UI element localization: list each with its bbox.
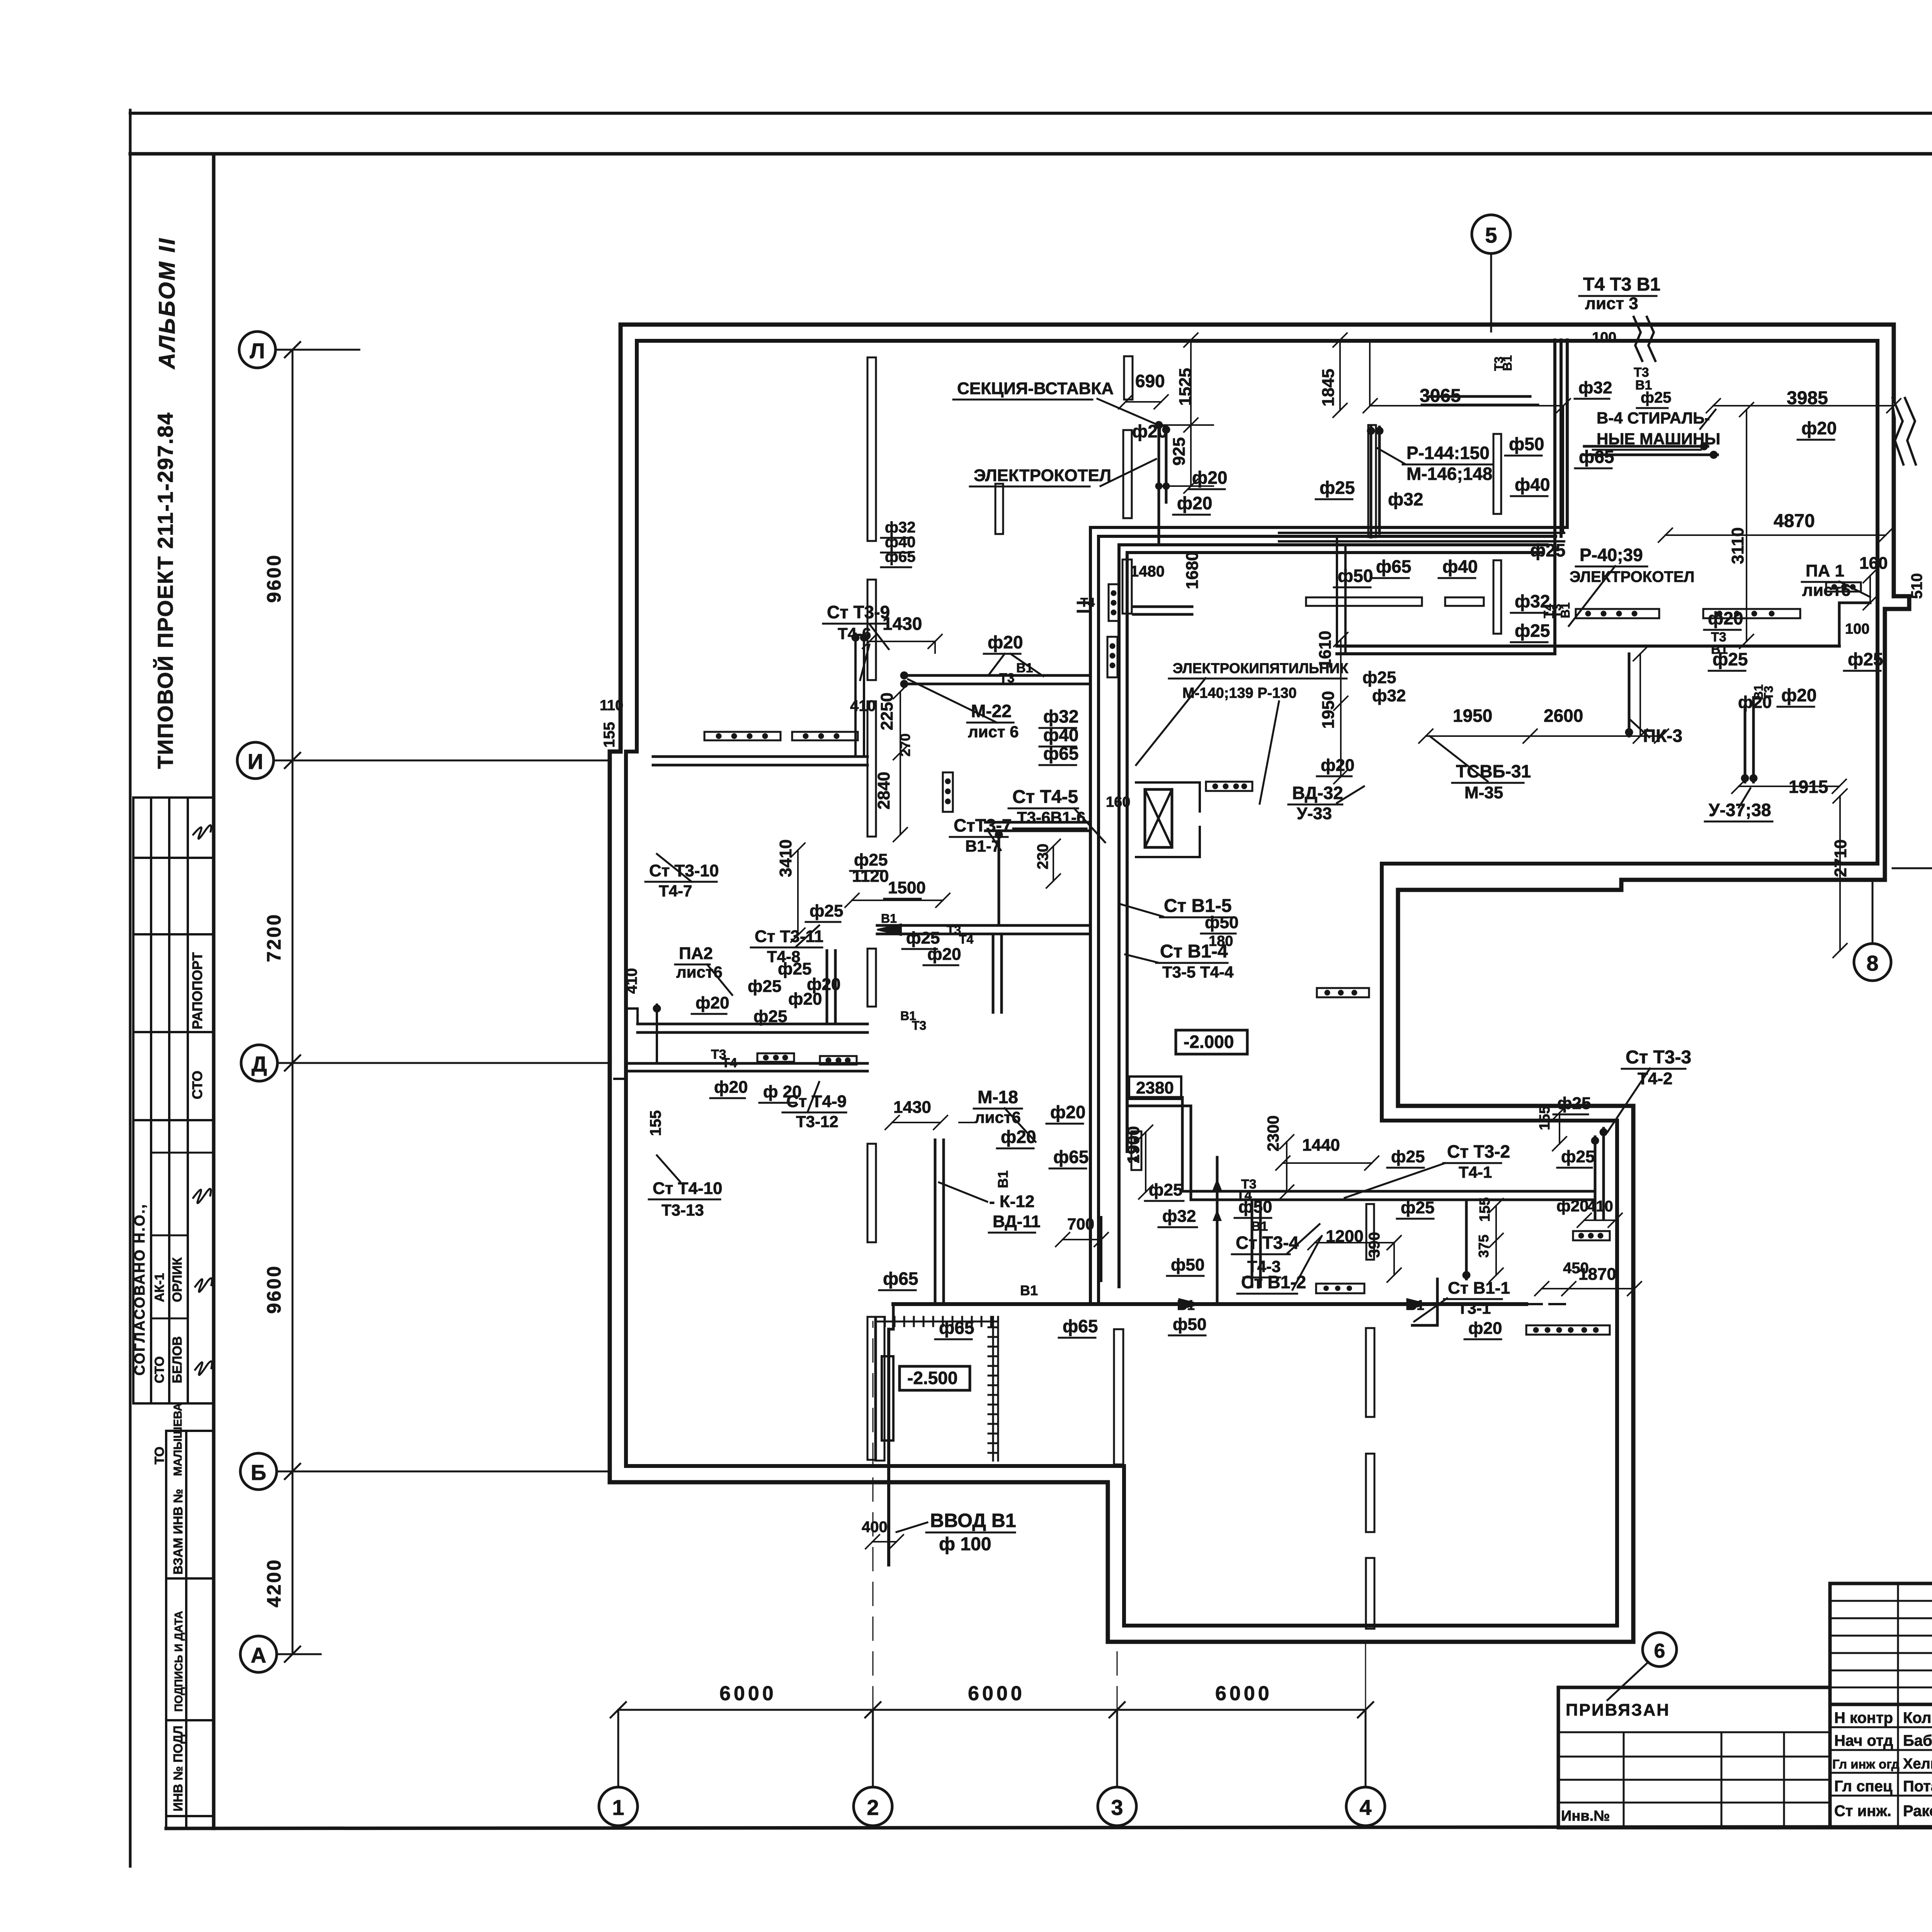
- svg-text:БЕЛОВ: БЕЛОВ: [170, 1336, 185, 1383]
- svg-text:Т4: Т4: [1080, 595, 1095, 609]
- svg-text:4200: 4200: [263, 1558, 285, 1607]
- svg-text:Р-40;39: Р-40;39: [1580, 545, 1643, 565]
- pipe R144 dots: [1367, 427, 1383, 435]
- svg-text:510: 510: [1908, 573, 1925, 599]
- leader vvod: [896, 1522, 927, 1532]
- partition x2255 segment 6: [867, 1317, 876, 1460]
- leader tsvb: [1430, 736, 1488, 781]
- svg-text:Ст В1-4: Ст В1-4: [1160, 941, 1228, 962]
- svg-text:ЭЛЕКТРОКОТЕЛ: ЭЛЕКТРОКОТЕЛ: [974, 466, 1111, 485]
- pipe V1 riser x3150: [1213, 1157, 1222, 1304]
- svg-text:ЭЛЕКТРОКОТЕЛ: ЭЛЕКТРОКОТЕЛ: [1570, 568, 1695, 585]
- leader secziya: [1097, 399, 1155, 423]
- axis circle 2: [854, 1787, 892, 1826]
- svg-text:М-22: М-22: [971, 701, 1012, 721]
- leader vd32: [1337, 786, 1364, 803]
- leader pa1: [1839, 582, 1870, 597]
- pipe U37 pair vertical: [1745, 697, 1753, 782]
- svg-text:8: 8: [1866, 951, 1878, 975]
- wall break mark top: [1634, 317, 1655, 361]
- svg-text:1845: 1845: [1319, 369, 1338, 406]
- pipe U37 dots: [1741, 774, 1757, 782]
- leader st t3-4: [1287, 1224, 1321, 1290]
- pipe T4 branch west stub: [1078, 603, 1090, 611]
- dim line 1525 925: [1159, 333, 1213, 493]
- pipe stack T3-9 dots: [852, 634, 868, 641]
- svg-text:ф40: ф40: [1043, 725, 1078, 745]
- pier elektrokotel: [1123, 430, 1132, 518]
- svg-text:1870: 1870: [1578, 1265, 1616, 1284]
- vent block vertical riser c: [1131, 1131, 1141, 1170]
- dim line 1120 1500: [845, 893, 950, 907]
- dim line 4870: [1658, 528, 1893, 542]
- vent block row left upper a: [704, 732, 781, 740]
- svg-text:В1: В1: [1177, 1297, 1195, 1313]
- svg-text:6000: 6000: [1215, 1682, 1272, 1705]
- svg-text:1525: 1525: [1176, 368, 1195, 406]
- svg-text:Гл инж огд: Гл инж огд: [1832, 1757, 1900, 1771]
- pipe W vertical bottom: [1252, 1201, 1260, 1287]
- svg-text:ф25: ф25: [1530, 540, 1565, 560]
- pipe main F horizontal: [1182, 1191, 1594, 1200]
- svg-text:ф25: ф25: [1149, 1180, 1182, 1199]
- leader st t3-11: [796, 925, 819, 947]
- pipe 1680 branch: [1133, 607, 1192, 614]
- svg-text:В1: В1: [1406, 1297, 1424, 1313]
- pipe main A left drop: [1337, 537, 1345, 654]
- pipe J upper left pair: [653, 757, 867, 765]
- svg-text:ТО: ТО: [152, 1447, 167, 1464]
- svg-text:В1: В1: [1500, 355, 1514, 371]
- svg-text:ф20: ф20: [714, 1078, 748, 1097]
- svg-text:Ст инж.: Ст инж.: [1834, 1803, 1891, 1820]
- inner frame bottom: [166, 1826, 1932, 1828]
- vent block vertical left: [943, 772, 953, 812]
- leader m22: [908, 679, 997, 723]
- lift shaft side walls: [1136, 782, 1200, 857]
- svg-text:ф25: ф25: [1320, 478, 1355, 498]
- svg-text:ПОДПИСЬ И ДАТА: ПОДПИСЬ И ДАТА: [173, 1611, 185, 1712]
- svg-text:1440: 1440: [1302, 1136, 1340, 1155]
- svg-text:СЕКЦИЯ-ВСТАВКА: СЕКЦИЯ-ВСТАВКА: [957, 379, 1114, 398]
- svg-text:2840: 2840: [874, 772, 893, 810]
- svg-text:Л: Л: [250, 338, 265, 363]
- svg-text:ф20: ф20: [1192, 468, 1227, 488]
- partition x3545 segment 2: [1366, 1454, 1374, 1532]
- leader pk3: [1629, 719, 1649, 737]
- partition x2255 segment 1: [867, 357, 876, 541]
- dim line 1845: [1333, 333, 1347, 417]
- axis Zh tick line: [1893, 861, 1932, 876]
- page outer border top: [130, 112, 1932, 115]
- svg-text:ф32: ф32: [1372, 686, 1406, 705]
- svg-text:ф25: ф25: [854, 850, 888, 869]
- left axis dimension line: [292, 350, 294, 1654]
- svg-text:925: 925: [1170, 437, 1189, 466]
- vent block horizontal center: [1206, 782, 1252, 791]
- axis circle B2: [240, 1453, 277, 1490]
- grid line axis2 dashed: [872, 1321, 874, 1710]
- svg-text:1: 1: [612, 1795, 624, 1820]
- svg-text:ф50: ф50: [1171, 1255, 1204, 1274]
- svg-text:ф25: ф25: [753, 1007, 787, 1026]
- svg-text:ф20: ф20: [696, 993, 729, 1012]
- svg-text:Т4: Т4: [959, 932, 974, 946]
- pipe riser bundle vertical: [1090, 527, 1127, 1302]
- titleblock names box: [1830, 1704, 1932, 1828]
- svg-text:Т3: Т3: [912, 1019, 926, 1032]
- dim line 1430 top: [862, 634, 942, 653]
- dim line 390: [1387, 1236, 1401, 1282]
- partition x2255 segment 5: [867, 1144, 876, 1242]
- pier center left: [995, 484, 1003, 534]
- svg-text:Гл спец: Гл спец: [1834, 1778, 1893, 1795]
- titleblock privyazan rows: [1558, 1732, 1830, 1803]
- svg-text:155: 155: [1477, 1197, 1493, 1222]
- building outer wall outline: [610, 325, 1909, 1642]
- svg-text:Нач отд: Нач отд: [1834, 1732, 1893, 1749]
- pipe I2 left wing lower: [626, 1063, 867, 1071]
- svg-text:В1: В1: [1020, 1282, 1038, 1298]
- svg-text:ф65: ф65: [1053, 1147, 1088, 1167]
- dim line 450 1870: [1535, 1282, 1641, 1296]
- svg-text:ф20: ф20: [1556, 1197, 1588, 1215]
- bottom axis ticks: [611, 1702, 1373, 1718]
- svg-text:Т3-12: Т3-12: [796, 1112, 838, 1131]
- vent block row left upper b: [792, 732, 858, 740]
- svg-text:Б: Б: [251, 1460, 266, 1485]
- svg-text:Т4-7: Т4-7: [659, 882, 692, 900]
- svg-text:ф65: ф65: [939, 1318, 974, 1338]
- svg-text:М-35: М-35: [1464, 783, 1503, 802]
- svg-text:ф25: ф25: [1362, 668, 1396, 687]
- svg-text:ВД-11: ВД-11: [993, 1212, 1041, 1231]
- svg-text:ф20: ф20: [1132, 421, 1167, 441]
- svg-text:ф20: ф20: [1801, 418, 1837, 438]
- svg-text:ПА 1: ПА 1: [1806, 561, 1844, 580]
- svg-text:155: 155: [1537, 1106, 1553, 1130]
- sidebar signature belov: [195, 1278, 212, 1292]
- svg-text:лист 3: лист 3: [1585, 294, 1638, 313]
- dim line 1440: [1276, 1156, 1379, 1170]
- leader st t4-5: [1074, 808, 1105, 842]
- svg-text:ВВОД В1: ВВОД В1: [930, 1510, 1016, 1531]
- svg-text:1900: 1900: [1124, 1126, 1143, 1164]
- svg-text:ф25: ф25: [1561, 1147, 1595, 1166]
- vent block bottom right b: [1526, 1325, 1610, 1335]
- svg-text:3110: 3110: [1728, 527, 1747, 564]
- svg-text:3065: 3065: [1420, 386, 1461, 406]
- svg-text:-2.500: -2.500: [907, 1368, 957, 1388]
- axis A tick line: [277, 1646, 321, 1662]
- pipe washers pair: [1584, 446, 1718, 455]
- top axis circle 5: [1472, 215, 1510, 253]
- svg-text:2600: 2600: [1544, 706, 1583, 726]
- svg-text:230: 230: [1034, 844, 1051, 869]
- pipe I3 left bend: [614, 1009, 638, 1079]
- axis circle 1: [599, 1787, 638, 1826]
- svg-text:6000: 6000: [719, 1682, 777, 1705]
- svg-text:Т3-6В1-6: Т3-6В1-6: [1017, 808, 1085, 827]
- svg-text:ф32: ф32: [1043, 706, 1078, 726]
- svg-text:Т4-6: Т4-6: [838, 624, 871, 643]
- dim line 1760: [1633, 647, 1647, 743]
- svg-text:410: 410: [850, 697, 876, 714]
- svg-text:СОГЛАСОВАНО Н.О.,: СОГЛАСОВАНО Н.О.,: [132, 1203, 148, 1376]
- room minus2500 top wall hatched: [875, 1317, 998, 1326]
- dim line 155 375: [1489, 1199, 1503, 1282]
- leader r144: [1378, 448, 1405, 464]
- svg-text:ф25: ф25: [810, 901, 843, 920]
- svg-text:ф20: ф20: [1321, 756, 1354, 775]
- dim line 700: [1056, 1233, 1108, 1247]
- vent block L row: [1316, 1284, 1364, 1293]
- svg-text:М-146;148: М-146;148: [1406, 464, 1492, 484]
- svg-text:100: 100: [1592, 330, 1616, 346]
- interior wall y1390: [1279, 533, 1564, 541]
- pipe secziya dots: [1155, 421, 1170, 490]
- svg-text:1610: 1610: [1316, 631, 1335, 668]
- svg-text:ф50: ф50: [1238, 1197, 1272, 1216]
- svg-text:Потапова: Потапова: [1903, 1778, 1932, 1795]
- svg-text:Т4 Т3 В1: Т4 Т3 В1: [1583, 274, 1660, 295]
- axis circle D: [241, 1045, 277, 1081]
- pipe stack V1-1: [1412, 1279, 1437, 1325]
- leader st t4-10: [657, 1155, 680, 1182]
- svg-text:ИНВ № ПОДЛ: ИНВ № ПОДЛ: [171, 1726, 185, 1811]
- svg-text:ф25: ф25: [1401, 1198, 1434, 1217]
- svg-text:4: 4: [1359, 1795, 1371, 1820]
- titleblock names rows: [1830, 1727, 1932, 1796]
- dim line 1915: [1732, 779, 1846, 793]
- pipe PK-3 vertical: [1628, 654, 1631, 736]
- svg-text:СТО: СТО: [189, 1071, 205, 1099]
- grid line axis3 dashed: [1117, 1642, 1118, 1710]
- leader m18: [1005, 1108, 1036, 1142]
- svg-text:Бабин: Бабин: [1903, 1732, 1932, 1749]
- svg-text:Р-144:150: Р-144:150: [1406, 443, 1490, 463]
- dim line 1430 k: [885, 1116, 975, 1129]
- pipe PK-3 dot: [1625, 728, 1633, 736]
- svg-text:Ст Т3-4: Ст Т3-4: [1236, 1233, 1299, 1253]
- leader pa2: [707, 964, 732, 995]
- svg-text:Т3: Т3: [1762, 686, 1776, 700]
- pier qb vertical 3: [1368, 425, 1376, 537]
- pipe V stack V1-8: [993, 935, 1002, 1012]
- svg-text:А: А: [251, 1643, 266, 1667]
- svg-text:1680: 1680: [1183, 551, 1202, 589]
- dim line 155 st33: [1553, 1106, 1566, 1151]
- pier room inner: [882, 1356, 893, 1440]
- svg-text:2: 2: [867, 1795, 879, 1820]
- svg-text:ВЗАМ ИНВ №: ВЗАМ ИНВ №: [171, 1489, 185, 1575]
- leader r4039: [1569, 566, 1615, 626]
- svg-text:ф65: ф65: [1376, 556, 1411, 577]
- svg-text:В1: В1: [1711, 642, 1728, 657]
- pipe stack T3-3 dots: [1591, 1128, 1607, 1145]
- svg-text:У-33: У-33: [1297, 804, 1332, 823]
- svg-text:2380: 2380: [1136, 1078, 1174, 1097]
- svg-text:ф32: ф32: [1578, 378, 1612, 397]
- bottom axis stub 2: [872, 1710, 874, 1787]
- svg-text:Колганова: Колганова: [1903, 1709, 1932, 1726]
- axis circle A: [240, 1636, 277, 1672]
- pipe T branch T4-5: [985, 822, 1090, 831]
- pier room left: [875, 1317, 884, 1461]
- leader st t4-9: [808, 1082, 819, 1112]
- pipe main E arrow: [877, 924, 901, 935]
- svg-text:Д: Д: [252, 1052, 267, 1076]
- svg-text:ф25: ф25: [1515, 621, 1550, 641]
- pipe secziya vstavka stubs: [1159, 423, 1166, 520]
- svg-text:Ст Т4-5: Ст Т4-5: [1012, 787, 1078, 807]
- pipe stack T3-9 vertical: [855, 634, 864, 757]
- svg-text:ф50: ф50: [1509, 434, 1544, 454]
- pipe left wing dot: [653, 1005, 661, 1012]
- svg-text:ф20: ф20: [927, 945, 961, 964]
- axis I tick line: [274, 753, 607, 768]
- pipe main E horizontal: [877, 925, 1090, 934]
- bottom axis dim line: [618, 1709, 1366, 1711]
- pipe main A horizontal: [1337, 646, 1839, 654]
- inner frame left: [212, 154, 216, 1828]
- svg-text:ф65: ф65: [885, 548, 916, 565]
- svg-text:4870: 4870: [1774, 511, 1815, 531]
- axis circle 3: [1098, 1787, 1136, 1826]
- svg-text:375: 375: [1476, 1235, 1492, 1258]
- leader u3738: [1739, 788, 1750, 808]
- axis 8 stub: [1872, 882, 1874, 944]
- svg-text:700: 700: [1067, 1215, 1094, 1233]
- leader st t3-2: [1345, 1163, 1445, 1198]
- dim line 410: [1577, 1213, 1622, 1227]
- svg-text:Т4: Т4: [722, 1056, 737, 1070]
- svg-text:1430: 1430: [893, 1098, 931, 1117]
- pipe main C start dots: [900, 672, 908, 688]
- svg-text:ВД-32: ВД-32: [1292, 783, 1343, 803]
- pipe riser B vertical: [1555, 340, 1567, 653]
- interior wall y1550 pier 3 with vents: [1576, 609, 1659, 618]
- svg-text:Т3-13: Т3-13: [662, 1201, 704, 1219]
- pipe stack T3-3: [1595, 1128, 1604, 1219]
- partition x2255 segment 2: [867, 580, 876, 680]
- sidebar signature mal: [195, 1361, 212, 1375]
- dim line 1610 1950: [1334, 633, 1348, 784]
- axis circle 6 plan: [1643, 1633, 1677, 1667]
- svg-text:Т3: Т3: [999, 671, 1015, 685]
- svg-text:Ст Т3-10: Ст Т3-10: [649, 861, 719, 880]
- pipe U dot: [995, 831, 1003, 838]
- svg-text:ф40: ф40: [1442, 556, 1478, 577]
- svg-text:ф65: ф65: [1063, 1316, 1098, 1336]
- svg-text:И: И: [248, 749, 263, 774]
- svg-text:ф20: ф20: [1781, 685, 1816, 705]
- svg-text:690: 690: [1135, 371, 1165, 391]
- titleblock small grid box: [1830, 1583, 1932, 1704]
- dim line 3985: [1706, 399, 1901, 413]
- titleblock privyazan box: [1558, 1687, 1830, 1828]
- svg-text:ф32: ф32: [1162, 1207, 1196, 1226]
- svg-text:Т3-1: Т3-1: [1458, 1299, 1491, 1317]
- svg-text:В-4 СТИРАЛЬ-: В-4 СТИРАЛЬ-: [1597, 409, 1710, 427]
- svg-text:ф20: ф20: [988, 632, 1023, 652]
- svg-text:ПА2: ПА2: [679, 944, 713, 963]
- leader elektrokotel: [1100, 459, 1156, 486]
- titleblock small grid rows: [1830, 1601, 1932, 1687]
- leader st t3-7: [989, 833, 1001, 850]
- sidebar lower table horizontals: [166, 1431, 214, 1816]
- pipe branch 2380 horiz: [1127, 1097, 1191, 1106]
- svg-text:В1: В1: [881, 912, 897, 925]
- svg-text:160: 160: [1859, 554, 1888, 573]
- svg-text:1120: 1120: [852, 867, 889, 886]
- pipe main C horizontal: [904, 675, 1090, 684]
- svg-text:5: 5: [1485, 223, 1497, 247]
- bottom axis stub 3: [1116, 1710, 1118, 1787]
- svg-text:ф20: ф20: [1468, 1319, 1502, 1338]
- pipe main G horizontal V1: [893, 1302, 1526, 1306]
- svg-text:Т4-1: Т4-1: [1459, 1163, 1492, 1181]
- axis 6 leader: [1607, 1662, 1648, 1700]
- svg-text:155: 155: [647, 1110, 664, 1136]
- svg-text:СтТ3-7: СтТ3-7: [954, 815, 1012, 835]
- leader v41: [1700, 410, 1716, 429]
- leader st t3-3: [1607, 1068, 1650, 1132]
- leader st v1-5: [1121, 904, 1163, 917]
- titleblock small grid cols: [1898, 1583, 1932, 1704]
- bottom axis stub 4: [1365, 1710, 1367, 1787]
- pipe elektrokotel stub: [1158, 520, 1160, 545]
- partition x3545 segment 3: [1366, 1558, 1374, 1629]
- axis L tick line: [276, 342, 359, 357]
- interior wall y1550 pier 1: [1306, 597, 1422, 606]
- titleblock privyazan cols: [1624, 1732, 1784, 1828]
- svg-text:Инв.№: Инв.№: [1561, 1808, 1610, 1824]
- svg-text:Ракова: Ракова: [1903, 1803, 1932, 1820]
- pier qb vertical 1: [1493, 434, 1501, 514]
- svg-text:155: 155: [601, 722, 618, 748]
- dim line 1950 2600: [1419, 729, 1668, 743]
- svg-text:У-37;38: У-37;38: [1709, 800, 1771, 820]
- svg-text:В1-7: В1-7: [965, 837, 1000, 855]
- svg-text:Т3-5 Т4-4: Т3-5 Т4-4: [1162, 963, 1234, 981]
- svg-text:400: 400: [862, 1519, 888, 1536]
- svg-text:ф25: ф25: [1391, 1147, 1425, 1166]
- pipe washers dots: [1700, 442, 1718, 459]
- axis circle I: [237, 742, 274, 779]
- svg-text:ф65: ф65: [1043, 743, 1078, 764]
- svg-text:лист 6: лист 6: [968, 723, 1019, 741]
- top axis 5 line: [1490, 253, 1492, 332]
- pipe main G k end: [1526, 1303, 1565, 1305]
- svg-text:1950: 1950: [1453, 706, 1492, 726]
- svg-text:9600: 9600: [263, 1265, 285, 1314]
- vent block notch row: [1317, 988, 1369, 997]
- svg-text:ф40: ф40: [1515, 474, 1550, 495]
- svg-text:Ст Т3-2: Ст Т3-2: [1447, 1141, 1510, 1162]
- svg-text:6000: 6000: [968, 1682, 1025, 1705]
- svg-text:ф50: ф50: [1173, 1315, 1206, 1334]
- pipe main G arrowheads: [1179, 1298, 1430, 1310]
- svg-text:Хелимский: Хелимский: [1903, 1756, 1932, 1772]
- svg-text:М-140;139 Р-130: М-140;139 Р-130: [1182, 685, 1297, 701]
- svg-text:ф50: ф50: [1205, 913, 1238, 932]
- page outer border left: [129, 110, 132, 1866]
- building inner wall outline: [626, 341, 1878, 1626]
- sidebar stamp table verticals: [133, 798, 213, 1403]
- vent block bottom right a: [1573, 1231, 1610, 1240]
- svg-text:В1: В1: [995, 1170, 1011, 1188]
